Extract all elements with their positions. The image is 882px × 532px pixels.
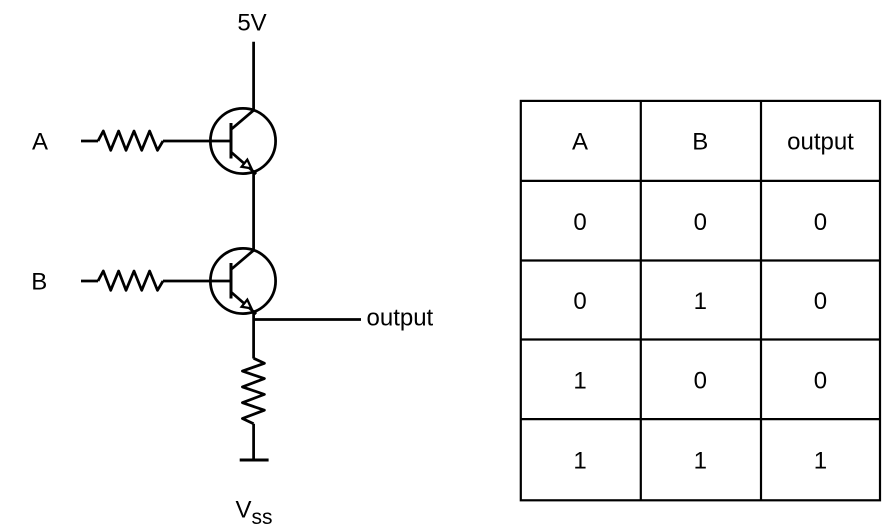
resistor R1 [98, 131, 163, 150]
svg-text:0: 0 [814, 367, 827, 394]
svg-text:1: 1 [573, 367, 586, 394]
transistor Q1 [210, 108, 275, 174]
svg-text:0: 0 [814, 209, 827, 236]
wire input A to R1 [81, 140, 98, 143]
resistor R2 [98, 271, 163, 290]
svg-text:0: 0 [694, 367, 707, 394]
svg-text:A: A [572, 129, 588, 156]
transistor Q2 [210, 248, 275, 314]
svg-text:0: 0 [573, 288, 586, 315]
svg-text:1: 1 [694, 288, 707, 315]
svg-text:A: A [32, 128, 48, 155]
resistor R3 [242, 358, 264, 424]
wire R1 to Q1 base [163, 140, 231, 143]
svg-text:output: output [787, 129, 854, 156]
wire 5V to Q1 collector [252, 42, 255, 111]
svg-text:1: 1 [814, 447, 827, 474]
wire input B to R2 [81, 280, 98, 283]
wire Q1 emitter to Q2 collector [252, 171, 255, 250]
svg-text:1: 1 [573, 447, 586, 474]
wire R2 to Q2 base [163, 280, 231, 283]
svg-text:5V: 5V [237, 9, 266, 36]
svg-text:0: 0 [694, 209, 707, 236]
svg-text:1: 1 [694, 447, 707, 474]
svg-text:B: B [31, 268, 47, 295]
wire output branch [254, 318, 361, 321]
svg-text:B: B [692, 129, 708, 156]
svg-text:0: 0 [814, 288, 827, 315]
svg-text:0: 0 [573, 209, 586, 236]
ground Vss bar [240, 459, 269, 462]
wire Q2 emitter to R3 [252, 311, 255, 358]
truth table grid [521, 101, 880, 500]
svg-text:output: output [367, 305, 434, 332]
wire R3 to ground [252, 424, 255, 460]
